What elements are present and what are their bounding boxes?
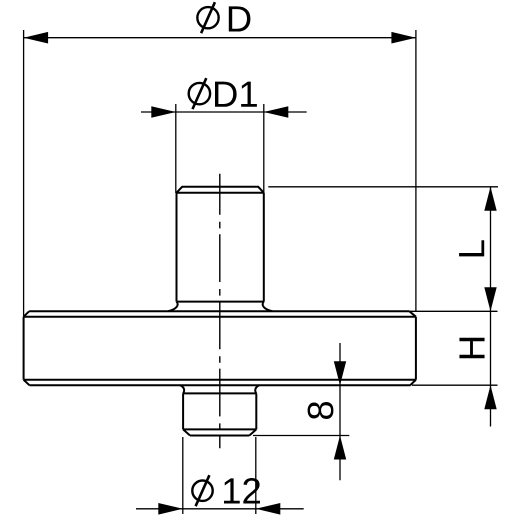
dimension 8 arrow bottom (outside, pointing up) xyxy=(334,436,346,460)
dimension 12 extension line right xyxy=(255,437,257,514)
dimension D1 extension line right xyxy=(263,104,265,193)
dimension 8 label text xyxy=(308,402,334,419)
dimension H arrow bottom (outside, pointing up) xyxy=(484,385,496,409)
dimension D1 arrow left (outside, pointing right) xyxy=(151,106,176,118)
dimension D1 arrow right (outside, pointing left) xyxy=(264,106,289,118)
dimension D1 label: diameter symbol xyxy=(189,78,210,109)
dimension 12 arrow right (outside, pointing left) xyxy=(256,503,280,515)
flange bottom extension line to right xyxy=(412,384,498,386)
dimension D arrow right xyxy=(391,32,416,44)
dimension L/H line xyxy=(490,187,492,427)
top stem outline (D1 cylinder) xyxy=(168,187,272,311)
dimension D line xyxy=(24,37,416,39)
dimension 12 label: diameter symbol xyxy=(192,475,212,506)
dimension 8 arrow top (outside, pointing down) xyxy=(334,361,346,385)
dimension L arrow top (pointing up) xyxy=(484,187,496,211)
dimension D label: diameter symbol xyxy=(197,2,218,33)
dimension D1 line xyxy=(141,111,307,113)
dimension D arrow left xyxy=(24,32,48,44)
dimension 12 arrow left (outside, pointing right) xyxy=(158,503,183,515)
dimension 12 label text xyxy=(224,478,260,503)
flange top extension line to right xyxy=(409,310,497,312)
dimension L extension line (stem top, right side) xyxy=(268,186,498,188)
dimension D1 extension line left xyxy=(175,104,177,193)
dimension 8 line xyxy=(339,343,341,480)
dimension L arrow bottom / H arrow top (pointing down) xyxy=(484,287,496,311)
dimension 12 extension line left xyxy=(182,437,184,514)
dimension H label text xyxy=(459,338,484,358)
dimension 12 line xyxy=(136,508,304,510)
centerline (vertical dash-dot axis) xyxy=(219,174,221,449)
flange outline (D disc) xyxy=(24,311,416,385)
dimension D1 label text xyxy=(215,82,257,107)
dimension L label text xyxy=(459,240,484,256)
dimension D label text xyxy=(229,6,251,31)
dimension 8 extension line (stem bottom, right side) xyxy=(253,435,349,437)
dimension D extension line left xyxy=(23,30,25,317)
bottom stem outline (12mm spigot) xyxy=(180,385,259,435)
dimension D extension line right xyxy=(415,30,417,311)
